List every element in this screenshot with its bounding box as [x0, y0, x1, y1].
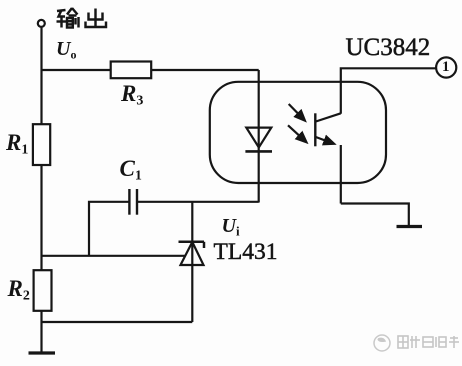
watermark text 硬件笔记本 [398, 336, 459, 348]
wire emitter to ground [341, 204, 409, 226]
pin 1 circle [436, 57, 456, 77]
label C1 [120, 156, 142, 185]
LED diode of optocoupler [245, 128, 272, 152]
wire reference to TL431 [42, 255, 186, 257]
ground right [397, 225, 423, 228]
wire UC3842 pin1 to collector [341, 68, 437, 114]
watermark logo bottom right [374, 335, 390, 351]
label Ui [222, 215, 240, 240]
wire left rail [40, 27, 42, 353]
phototransistor [315, 113, 341, 203]
resistor R3 [111, 62, 152, 79]
regulator U1 TL431 [179, 202, 205, 323]
wire top horizontal Uo to LED [42, 69, 259, 71]
wire C1 left [89, 202, 129, 256]
label 输出 (output) drawn strokes [57, 8, 107, 28]
wire C1 right to LED cathode [137, 201, 259, 203]
optocoupler U body [210, 82, 386, 183]
label R3 [121, 81, 143, 110]
label R1 [6, 130, 28, 159]
label UC3842 [346, 34, 431, 62]
light arrow 2 [288, 125, 306, 142]
label TL431 [214, 239, 278, 266]
char 输 [57, 8, 79, 28]
light arrow 1 [289, 104, 305, 120]
char 出 [86, 9, 107, 28]
wire anode to R2 bottom [42, 321, 193, 323]
node output terminal [38, 20, 45, 27]
capacitor C1 [129, 189, 137, 215]
resistor R1 [33, 124, 50, 165]
resistor R2 [34, 270, 52, 311]
label R2 [8, 276, 30, 305]
label Uo [56, 38, 76, 63]
pin 1 label [442, 59, 450, 76]
ground left [29, 351, 56, 354]
wire LED anode vertical [258, 70, 260, 203]
